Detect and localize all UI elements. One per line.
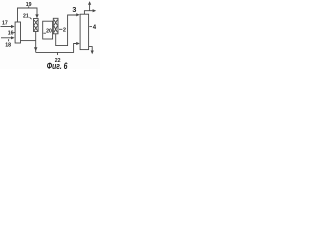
leader line of label 20 (43, 32, 46, 34)
column 2 packing X upper (54, 20, 58, 26)
column 2 body (53, 18, 58, 34)
wire arrowhead on drain (34, 47, 37, 51)
svg-text:17: 17 (2, 21, 8, 27)
wire 19 overhead line (18, 8, 38, 22)
wire arrow 17 into vessel 16 (1, 26, 12, 28)
wire bottom line 22 (36, 44, 77, 53)
wire outlet of vessel 16 (21, 40, 36, 42)
leader tick of label 21 (30, 17, 32, 19)
vessel 16 (15, 22, 20, 43)
svg-text:20: 20 (46, 29, 52, 35)
leader line of label 4 (89, 26, 92, 28)
leader line of label 16 (13, 32, 15, 34)
column 21 packing X upper (34, 20, 38, 25)
tank 20 (43, 21, 53, 39)
wire arrowhead into vessel 4 lower inlet (76, 42, 80, 45)
wire arrowhead into vessel 4 upper inlet (76, 13, 80, 16)
column 2 packing X lower (54, 26, 58, 32)
svg-text:18: 18 (5, 43, 11, 49)
svg-text:4: 4 (93, 25, 97, 31)
wire arrowhead into column 21 (35, 14, 38, 18)
wire riser 3 from column 2 to vessel 4 (56, 15, 77, 46)
wire arrowhead right on top outlet (93, 9, 97, 12)
leader tick of label 19 (28, 6, 30, 8)
svg-text:2: 2 (63, 28, 66, 34)
leader tick of label 18 (8, 39, 10, 41)
wire arrowhead down on right outlet (91, 51, 94, 55)
wire drain of column 21 down to bottom line (35, 32, 37, 53)
wire vent up arrow (89, 5, 91, 11)
svg-text:16: 16 (8, 31, 14, 37)
column 21 body (34, 19, 39, 32)
vessel 4 (80, 14, 89, 49)
column 21 packing X lower (34, 26, 38, 31)
wire arrowhead up on vent (88, 1, 91, 5)
svg-text:19: 19 (26, 2, 32, 8)
leader line of label 2 (59, 28, 62, 30)
wire right outlet of vessel 4 (89, 47, 93, 51)
svg-text:3: 3 (72, 5, 76, 14)
wire arrow 18 into vessel 16 (1, 37, 11, 39)
leader tick of label 22 (57, 52, 59, 55)
svg-text:21: 21 (23, 13, 29, 19)
wire top outlet of vessel 4 (84, 11, 92, 15)
svg-text:Фиг. 6: Фиг. 6 (47, 61, 68, 69)
